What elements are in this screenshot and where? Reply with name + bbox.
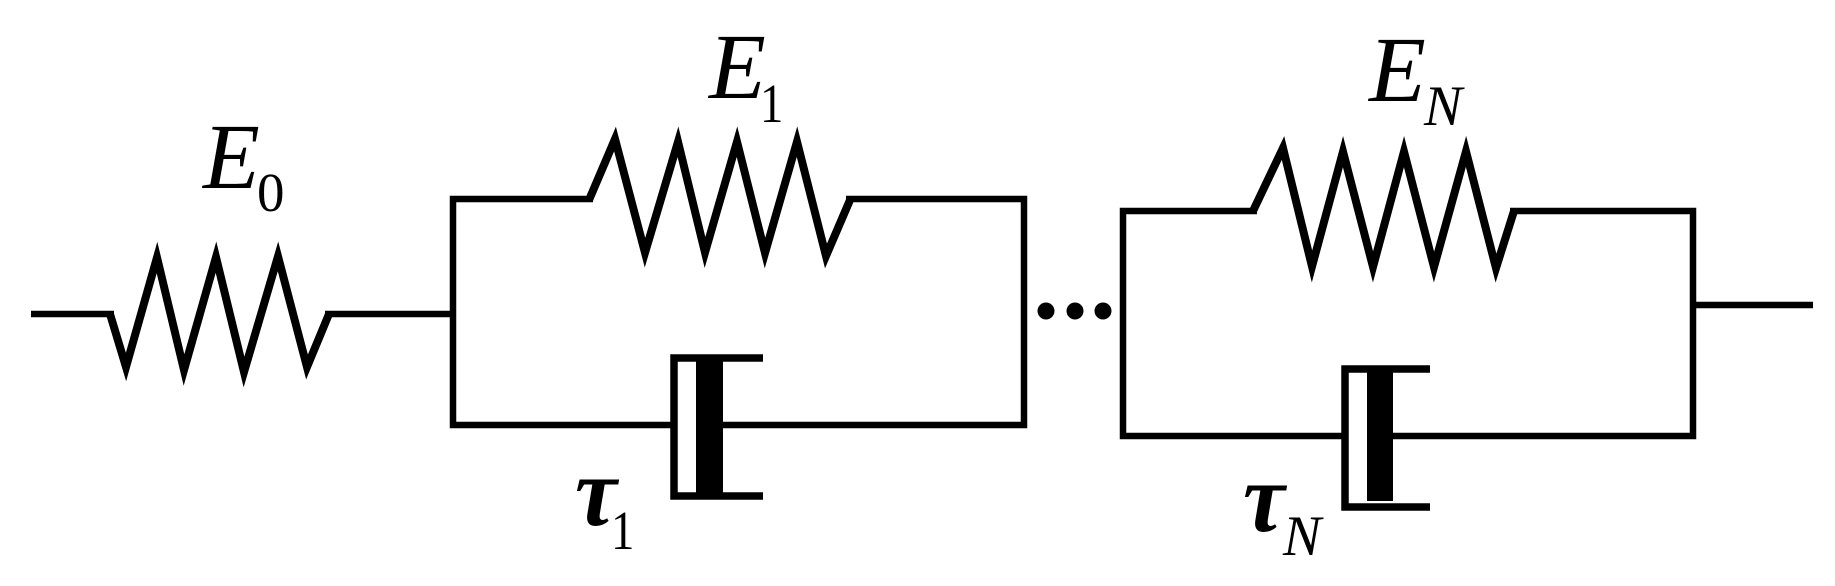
svg-text:0: 0	[257, 162, 285, 223]
svg-text:E: E	[201, 106, 260, 209]
svg-text:E: E	[1367, 19, 1426, 122]
svg-text:N: N	[1423, 75, 1465, 138]
svg-text:1: 1	[611, 502, 634, 562]
svg-text:E: E	[707, 16, 766, 119]
svg-text:N: N	[1282, 505, 1324, 568]
svg-text:τ: τ	[1243, 442, 1288, 552]
svg-text:1: 1	[760, 75, 783, 135]
